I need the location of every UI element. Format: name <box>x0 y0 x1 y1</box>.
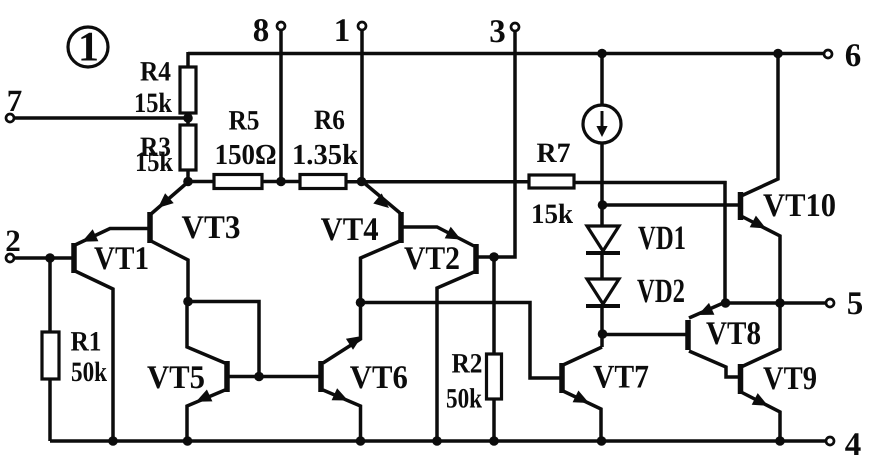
svg-text:1: 1 <box>78 25 99 71</box>
junction dot output node left <box>721 298 731 308</box>
transistor VT3 base bar <box>147 212 153 243</box>
transistor VT10 collector <box>741 54 778 197</box>
transistor VT9 base bar <box>738 364 744 394</box>
terminal pin 6 <box>824 50 832 58</box>
transistor VT7 emitter <box>563 391 601 442</box>
resistor R3 <box>180 125 196 170</box>
wire current source top <box>600 54 604 107</box>
transistor VT7 base bar <box>559 363 565 393</box>
label R6 <box>314 105 345 136</box>
terminal pin 2 <box>6 254 14 262</box>
svg-text:3: 3 <box>489 14 506 50</box>
value 15k of R4 <box>134 88 172 119</box>
svg-text:R5: R5 <box>229 106 260 137</box>
value 1.35k of R6 <box>292 139 359 171</box>
pin label 5 <box>847 286 864 322</box>
svg-text:R7: R7 <box>537 138 571 169</box>
resistor R4 <box>180 67 196 113</box>
svg-text:VT7: VT7 <box>593 360 649 396</box>
resistor R1 <box>42 332 59 379</box>
transistor VT2 base bar <box>473 244 479 274</box>
current source I1 <box>583 105 621 143</box>
svg-text:50k: 50k <box>446 384 482 415</box>
junction dot VT6 emitter / rail <box>356 436 366 446</box>
wire pin 3 vertical <box>492 30 515 257</box>
figure number circled 1 <box>68 25 108 71</box>
transistor VT8 collector <box>689 351 738 377</box>
svg-text:VT9: VT9 <box>763 361 817 397</box>
label VT6 <box>350 360 408 396</box>
pin label 1 <box>334 13 351 49</box>
label R4 <box>140 57 171 88</box>
transistor VT4 base bar <box>398 212 404 243</box>
svg-text:VD1: VD1 <box>638 220 686 257</box>
pin label 2 <box>5 223 21 258</box>
transistor VT10 emitter <box>741 216 780 303</box>
label VD1 <box>638 220 686 257</box>
svg-text:4: 4 <box>845 427 862 463</box>
junction dot R2 bottom / rail <box>489 436 499 446</box>
value 50k of R2 <box>446 384 482 415</box>
resistor R6 <box>300 175 346 189</box>
wire R6 to R7 <box>345 180 530 184</box>
transistor VT1 emitter to VT3 base <box>75 229 148 246</box>
label R3 <box>140 132 171 163</box>
svg-text:VT6: VT6 <box>350 360 408 396</box>
transistor VT4 emitter from mid rail <box>363 182 400 213</box>
transistor VT3 emitter from mid rail <box>151 182 188 214</box>
junction dot VT7 emitter / rail <box>597 436 607 446</box>
wire VD2 to VT8 base node <box>600 305 604 347</box>
wire R7 right to corner <box>573 181 727 185</box>
junction dot R6 right / pin1 line / VT4 emitter <box>357 177 367 187</box>
pin label 3 <box>489 14 506 50</box>
junction dot mirror base link <box>254 372 264 382</box>
svg-text:1.35k: 1.35k <box>292 139 359 171</box>
junction dot output node right <box>775 298 785 308</box>
svg-text:1: 1 <box>334 13 351 49</box>
terminal pin 7 <box>6 114 14 122</box>
transistor VT5 emitter <box>187 390 225 442</box>
junction dot VT10 base node <box>598 200 608 210</box>
svg-text:VT1: VT1 <box>94 241 149 277</box>
junction dot VT4/VT6 collector node <box>356 298 366 308</box>
wire R2 top <box>492 257 496 355</box>
transistor VT8 emitter <box>689 302 726 318</box>
wire top supply rail <box>188 52 824 56</box>
junction dot top rail / current source <box>597 49 607 59</box>
wire drop to output node <box>723 181 727 303</box>
wire output to pin 5 <box>725 301 826 304</box>
svg-text:5: 5 <box>847 286 864 322</box>
svg-text:VT3: VT3 <box>182 210 241 246</box>
svg-text:VT8: VT8 <box>706 316 761 352</box>
junction dot VT2 base / R2 / pin3 <box>489 252 499 262</box>
pin label 4 <box>845 427 862 463</box>
svg-text:VT2: VT2 <box>404 241 460 277</box>
transistor VT6 base bar <box>318 361 324 392</box>
svg-text:50k: 50k <box>71 357 107 388</box>
transistor VT7 collector <box>563 347 602 365</box>
junction dot pin2 / R1 <box>45 253 55 263</box>
label R2 <box>452 349 483 380</box>
wire pin 8 vertical <box>279 29 283 182</box>
label VD2 <box>637 273 685 310</box>
svg-text:8: 8 <box>253 13 270 49</box>
transistor VT10 base bar <box>738 192 744 220</box>
value 150&#937; of R5 <box>215 139 277 171</box>
wire VT2 base to pin3 node <box>476 255 494 259</box>
pin label 7 <box>7 83 23 118</box>
transistor VT9 emitter <box>741 392 780 441</box>
diode VD1 <box>586 226 620 253</box>
svg-text:2: 2 <box>5 223 21 258</box>
transistor VT4 base lead to VT2 emitter <box>401 227 474 246</box>
transistor VT6 emitter <box>323 388 361 441</box>
junction dot VT2 collector / rail <box>432 436 442 446</box>
junction dot VT1 emitter / rail <box>108 436 118 446</box>
svg-text:6: 6 <box>845 38 862 74</box>
wire pin 1 vertical <box>360 29 364 182</box>
wire VT5/VT6 base link <box>227 375 321 379</box>
svg-text:VT4: VT4 <box>321 212 379 248</box>
label R7 <box>537 138 571 169</box>
svg-text:15k: 15k <box>531 199 573 230</box>
wire VD1 to VD2 <box>600 252 604 281</box>
label VT3 <box>182 210 241 246</box>
wire VT5 current mirror tie <box>188 302 259 377</box>
transistor VT5 collector <box>187 302 225 364</box>
transistor VT9 collector <box>741 303 780 367</box>
junction dot R4/R3/pin7 node <box>183 113 193 123</box>
label VT4 <box>321 212 379 248</box>
svg-text:15k: 15k <box>135 147 173 178</box>
transistor VT1 base bar <box>71 243 77 273</box>
svg-text:150Ω: 150Ω <box>215 139 277 171</box>
label VT9 <box>763 361 817 397</box>
transistor VT2 collector <box>437 272 474 441</box>
label VT8 <box>706 316 761 352</box>
wire R4 top <box>186 52 190 68</box>
junction dot VD2 / VT7 collector / VT8 base <box>598 329 608 339</box>
transistor VT4 collector <box>361 241 401 303</box>
label VT1 <box>94 241 149 277</box>
terminal pin 1 <box>358 22 366 30</box>
wire R5 to R6 <box>261 180 301 184</box>
svg-text:VT5: VT5 <box>147 360 205 396</box>
diode VD2 <box>586 279 620 306</box>
resistor R2 <box>487 354 502 399</box>
junction dot VT3 collector / VT5 node <box>183 297 193 307</box>
wire VT10 base <box>603 203 739 207</box>
wire mid rail left segment <box>188 180 215 184</box>
label VT7 <box>593 360 649 396</box>
wire current source bottom to VD1 <box>600 142 604 228</box>
svg-text:R6: R6 <box>314 105 345 136</box>
svg-text:R4: R4 <box>140 57 171 88</box>
label R5 <box>229 106 260 137</box>
terminal pin 8 <box>277 22 285 30</box>
wire R2 bottom <box>492 398 496 441</box>
junction dot R3 bottom / mid rail <box>183 177 193 187</box>
label R1 <box>71 327 102 358</box>
svg-text:R1: R1 <box>71 327 102 358</box>
terminal pin 5 <box>826 299 834 307</box>
svg-text:R2: R2 <box>452 349 483 380</box>
svg-text:VT10: VT10 <box>763 188 836 224</box>
svg-text:7: 7 <box>7 83 23 118</box>
wire R1 top <box>48 258 52 333</box>
value 15k of R7 <box>531 199 573 230</box>
resistor R7 <box>529 175 574 188</box>
pin label 8 <box>253 13 270 49</box>
junction dot VT5 emitter / rail <box>183 436 193 446</box>
value 50k of R1 <box>71 357 107 388</box>
svg-text:VD2: VD2 <box>637 273 685 310</box>
transistor VT3 collector <box>151 241 188 302</box>
wire R1 bottom to rail corner <box>48 378 52 441</box>
wire R4 bottom to R3 top <box>186 112 190 126</box>
label VT5 <box>147 360 205 396</box>
label VT10 <box>763 188 836 224</box>
junction dot top rail / VT10 collector <box>773 49 783 59</box>
label VT2 <box>404 241 460 277</box>
wire VT7 base feed <box>361 303 560 379</box>
value 15k of R3 <box>135 147 173 178</box>
pin label 6 <box>845 38 862 74</box>
terminal pin 4 <box>826 437 834 445</box>
junction dot pin8 line / mid rail <box>276 177 286 187</box>
wire pin 2 to VT1 base <box>13 256 72 259</box>
transistor VT5 base bar <box>224 361 230 392</box>
resistor R5 <box>214 175 262 189</box>
junction dot VT9 emitter / rail <box>775 436 785 446</box>
wire VT8 base from diodes <box>602 333 686 337</box>
wire from pin 7 <box>13 116 188 119</box>
wire R3 bottom <box>186 169 190 183</box>
wire bottom rail <box>50 439 826 442</box>
svg-text:15k: 15k <box>134 88 172 119</box>
transistor VT8 base bar <box>685 320 691 350</box>
terminal pin 3 <box>511 23 519 31</box>
transistor VT6 collector <box>323 303 362 364</box>
transistor VT1 collector <box>75 271 113 441</box>
